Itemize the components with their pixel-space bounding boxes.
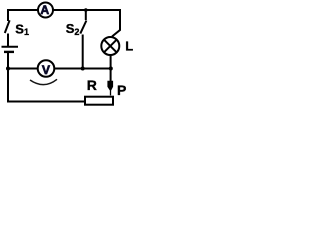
node junction S2 top on top wire	[84, 8, 88, 12]
wire S2 lower vertical	[82, 35, 84, 69]
voltmeter V1 circle	[38, 60, 55, 77]
lamp L cross line 1	[104, 40, 117, 53]
svg-text:L: L	[125, 38, 133, 53]
wire left vertical lower	[7, 53, 9, 103]
switch S1 blade	[5, 20, 10, 33]
wire lamp to branch junction	[110, 55, 112, 81]
node junction S2 bottom on voltmeter branch	[81, 67, 85, 71]
lamp L cross line 2	[104, 40, 117, 53]
rheostat wiper arrow P	[107, 81, 113, 96]
battery cell long plate	[2, 46, 19, 48]
wire top horizontal	[7, 9, 120, 11]
svg-text:P: P	[117, 82, 126, 98]
node junction left wire to voltmeter branch	[6, 67, 10, 71]
wire S2 upper stub	[85, 10, 87, 20]
voltmeter V1 dial arc	[30, 79, 57, 84]
resistor R box	[85, 97, 113, 105]
svg-text:V: V	[42, 63, 51, 77]
svg-text:R: R	[87, 77, 97, 93]
lamp L circle	[101, 37, 119, 55]
switch S2 blade	[80, 21, 86, 34]
battery cell short plate	[4, 51, 14, 53]
wire voltmeter branch horizontal	[8, 68, 111, 70]
svg-text:A: A	[40, 3, 49, 17]
wire right vertical from top corner	[112, 9, 120, 37]
node junction lamp branch on voltmeter branch	[109, 67, 113, 71]
wire left vertical upper	[7, 9, 9, 21]
ammeter A1 circle	[38, 3, 53, 18]
wire left vertical middle	[7, 34, 9, 48]
wire bottom horizontal	[7, 101, 85, 103]
